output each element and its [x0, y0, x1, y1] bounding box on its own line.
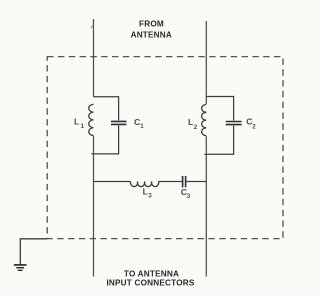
svg-text:C: C: [134, 117, 140, 127]
svg-text:2: 2: [194, 124, 198, 131]
svg-text:1: 1: [81, 123, 85, 130]
svg-text:2: 2: [252, 124, 256, 131]
svg-text:FROM: FROM: [139, 20, 164, 29]
svg-text:L: L: [188, 117, 193, 127]
svg-text:1: 1: [140, 123, 144, 130]
svg-text:ANTENNA: ANTENNA: [131, 31, 172, 40]
svg-text:TO ANTENNA: TO ANTENNA: [124, 269, 179, 278]
svg-text:3: 3: [148, 193, 152, 200]
svg-text:L: L: [143, 187, 148, 197]
svg-text:L: L: [74, 117, 79, 127]
svg-text:INPUT CONNECTORS: INPUT CONNECTORS: [106, 279, 194, 288]
svg-text:3: 3: [187, 193, 191, 200]
